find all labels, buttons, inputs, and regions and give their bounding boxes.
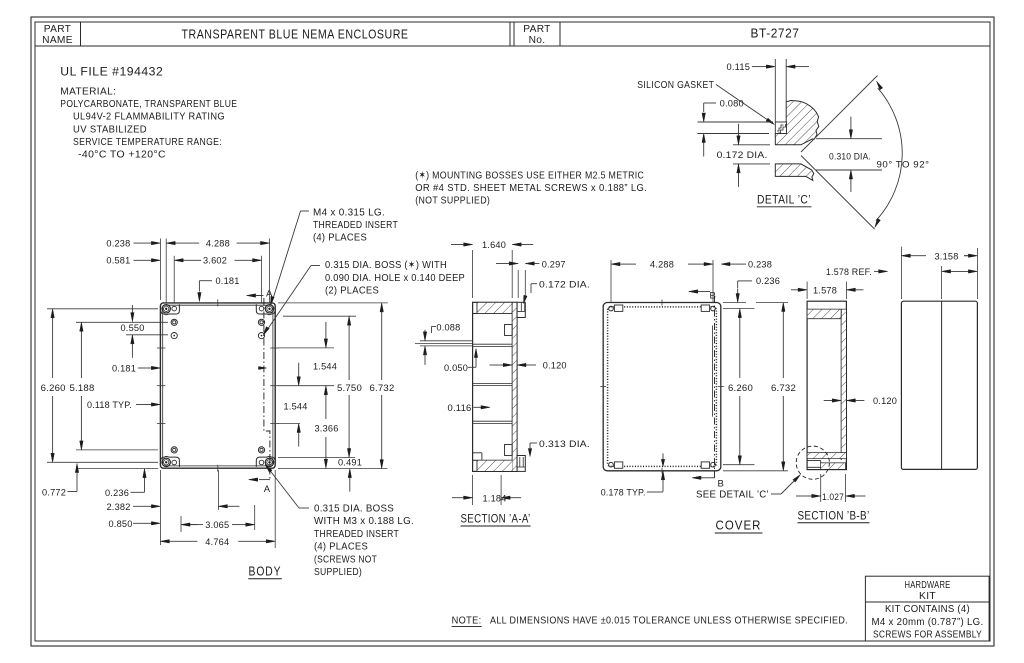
svg-text:OR #4 STD. SHEET METAL SCREWS: OR #4 STD. SHEET METAL SCREWS x 0.188” L… [415,183,647,194]
svg-text:0.050: 0.050 [444,363,468,373]
svg-text:1.578 REF.: 1.578 REF. [826,267,872,277]
svg-text:KIT CONTAINS (4): KIT CONTAINS (4) [885,604,970,615]
svg-text:DETAIL ’C’: DETAIL ’C’ [757,192,811,206]
svg-text:UL94V-2 FLAMMABILITY RATING: UL94V-2 FLAMMABILITY RATING [73,112,225,123]
svg-text:(4) PLACES: (4) PLACES [314,542,368,553]
svg-text:6.260: 6.260 [728,383,753,393]
svg-text:(2) PLACES: (2) PLACES [325,285,379,296]
svg-text:SCREWS FOR ASSEMBLY: SCREWS FOR ASSEMBLY [873,629,982,640]
svg-text:4.288: 4.288 [206,238,230,248]
svg-text:PART: PART [523,24,550,35]
svg-text:PART: PART [44,24,71,35]
svg-text:5.750: 5.750 [337,383,362,393]
svg-text:BT-2727: BT-2727 [751,27,800,41]
svg-text:1.544: 1.544 [313,362,337,372]
svg-text:SUPPLIED): SUPPLIED) [314,567,362,578]
svg-text:3.158: 3.158 [935,251,959,261]
svg-text:0.315 DIA. BOSS (✶) WITH: 0.315 DIA. BOSS (✶) WITH [325,260,447,271]
svg-text:TRANSPARENT BLUE NEMA ENCLOSUR: TRANSPARENT BLUE NEMA ENCLOSURE [182,28,409,42]
svg-text:4.764: 4.764 [205,537,229,547]
svg-text:2.382: 2.382 [107,502,131,512]
svg-text:SECTION ’A-A’: SECTION ’A-A’ [461,513,531,526]
svg-text:0.315 DIA. BOSS: 0.315 DIA. BOSS [314,504,394,515]
svg-text:0.238: 0.238 [106,238,130,248]
svg-text:0.088: 0.088 [436,322,460,332]
svg-text:0.090 DIA. HOLE x 0.140 DEEP: 0.090 DIA. HOLE x 0.140 DEEP [325,273,465,284]
svg-text:0.236: 0.236 [105,488,129,498]
svg-text:UL FILE #194432: UL FILE #194432 [60,66,163,78]
svg-text:6.260: 6.260 [41,383,66,393]
svg-text:A: A [264,484,271,495]
svg-text:HARDWARE: HARDWARE [905,580,951,591]
svg-text:5.188: 5.188 [70,383,95,393]
svg-text:0.850: 0.850 [109,519,133,529]
svg-text:0.172 DIA.: 0.172 DIA. [717,150,768,160]
svg-text:0.172 DIA.: 0.172 DIA. [539,280,590,290]
svg-text:90° TO 92°: 90° TO 92° [877,159,930,169]
svg-text:0.238: 0.238 [748,259,772,269]
svg-text:0.310 DIA.: 0.310 DIA. [829,152,871,162]
svg-text:6.732: 6.732 [370,383,395,393]
svg-text:3.366: 3.366 [315,424,339,434]
svg-text:4.288: 4.288 [650,259,674,269]
svg-text:0.550: 0.550 [121,323,145,333]
svg-text:1.544: 1.544 [284,402,308,412]
svg-text:THREADED INSERT: THREADED INSERT [313,220,398,231]
svg-text:SECTION ’B-B’: SECTION ’B-B’ [798,509,870,522]
svg-text:WITH M3 x 0.188 LG.: WITH M3 x 0.188 LG. [314,516,414,527]
svg-text:COVER: COVER [716,518,762,533]
svg-text:SILICON GASKET: SILICON GASKET [637,80,714,91]
svg-text:POLYCARBONATE, TRANSPARENT BLU: POLYCARBONATE, TRANSPARENT BLUE [60,99,237,110]
svg-text:MATERIAL:: MATERIAL: [60,86,116,97]
svg-text:0.115: 0.115 [727,62,751,72]
svg-text:-40°C TO +120°C: -40°C TO +120°C [78,150,166,161]
svg-text:M4 x 0.315 LG.: M4 x 0.315 LG. [313,207,385,218]
svg-text:NOTE:: NOTE: [452,615,482,626]
svg-text:B: B [718,479,725,490]
svg-text:0.491: 0.491 [338,457,362,467]
svg-text:BODY: BODY [249,563,282,578]
svg-text:0.581: 0.581 [106,256,130,266]
svg-text:0.178 TYP.: 0.178 TYP. [601,488,646,498]
svg-text:UV STABILIZED: UV STABILIZED [73,124,147,135]
svg-text:0.181: 0.181 [112,364,136,374]
svg-text:ALL DIMENSIONS HAVE ±0.015 TOL: ALL DIMENSIONS HAVE ±0.015 TOLERANCE UNL… [490,615,848,626]
svg-text:0.080: 0.080 [720,99,744,109]
svg-text:0.116: 0.116 [448,403,472,413]
svg-text:1.578: 1.578 [813,285,837,295]
svg-text:SERVICE TEMPERATURE RANGE:: SERVICE TEMPERATURE RANGE: [73,137,222,148]
svg-text:(SCREWS NOT: (SCREWS NOT [314,554,377,565]
svg-text:1.184: 1.184 [483,493,507,503]
svg-text:0.181: 0.181 [216,276,240,286]
svg-text:0.297: 0.297 [542,260,566,270]
svg-text:0.236: 0.236 [756,276,780,286]
svg-text:1.027: 1.027 [822,492,844,502]
svg-text:KIT: KIT [919,591,936,602]
svg-text:SEE DETAIL ’C’: SEE DETAIL ’C’ [696,490,769,501]
svg-text:(NOT SUPPLIED): (NOT SUPPLIED) [415,196,490,207]
svg-text:1.640: 1.640 [482,240,506,250]
svg-text:NAME: NAME [42,35,73,46]
svg-text:6.732: 6.732 [771,383,796,393]
svg-text:THREADED INSERT: THREADED INSERT [314,529,399,540]
svg-text:0.120: 0.120 [873,396,897,406]
svg-text:(4) PLACES: (4) PLACES [313,233,367,244]
svg-text:(✶) MOUNTING BOSSES USE EITHER: (✶) MOUNTING BOSSES USE EITHER M2.5 METR… [415,170,644,181]
svg-text:0.772: 0.772 [42,487,66,497]
svg-text:0.118 TYP.: 0.118 TYP. [87,400,132,410]
svg-text:0.120: 0.120 [543,361,567,371]
svg-text:0.313 DIA.: 0.313 DIA. [539,439,590,449]
svg-text:No.: No. [529,35,546,46]
svg-text:3.065: 3.065 [205,520,229,530]
svg-text:3.602: 3.602 [203,256,227,266]
svg-text:M4 x 20mm (0.787”) LG.: M4 x 20mm (0.787”) LG. [872,617,984,628]
